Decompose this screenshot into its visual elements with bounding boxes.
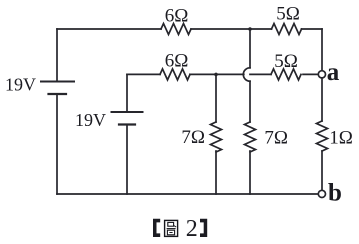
node b terminal circle: [318, 190, 325, 197]
caption bracket right: [200, 219, 207, 237]
wire top-left horizontal segment: [57, 28, 161, 30]
svg-text:1Ω: 1Ω: [329, 128, 353, 149]
junction dot at top wire: [248, 27, 252, 31]
wire left edge lower: [56, 94, 58, 194]
battery V2 19V short plate: [119, 123, 135, 125]
resistor R6 7ohm (right vertical) zigzag: [245, 122, 256, 152]
wire center vertical lower: [249, 151, 251, 194]
battery V2 19V long plate: [112, 111, 143, 113]
wire row2 to node a: [303, 73, 318, 75]
wire top right segment: [302, 28, 323, 30]
wire battery V2 branch upper: [126, 74, 128, 112]
wire top middle segment: [191, 28, 272, 30]
junction dot at row2 wire: [214, 73, 218, 77]
resistor R4 5ohm (row2) zigzag: [271, 69, 301, 80]
node a terminal circle: [318, 71, 325, 78]
wire hop arc (crossover, no connection): [243, 68, 250, 81]
wire center vertical middle: [249, 81, 251, 122]
wire right edge between node a and R7: [321, 78, 323, 121]
resistor R5 7ohm (left vertical) zigzag: [211, 122, 222, 152]
wire branch R5 upper: [215, 74, 217, 122]
svg-text:6Ω: 6Ω: [165, 6, 189, 27]
wire bottom horizontal: [57, 193, 318, 195]
resistor R2 5ohm (top right) zigzag: [272, 24, 302, 35]
svg-text:19V: 19V: [5, 75, 36, 95]
wire row2 middle segment to hop: [190, 73, 244, 75]
wire battery V2 branch lower: [126, 125, 128, 195]
svg-text:7Ω: 7Ω: [181, 127, 205, 148]
caption bracket left: [153, 219, 160, 237]
svg-text:a: a: [327, 59, 340, 86]
battery V1 19V short plate: [49, 93, 67, 95]
svg-text:b: b: [328, 179, 342, 206]
wire center vertical upper (from top junction): [249, 29, 251, 68]
svg-text:5Ω: 5Ω: [276, 4, 300, 25]
svg-text:5Ω: 5Ω: [274, 51, 298, 72]
resistor R3 6ohm (row2) zigzag: [160, 69, 190, 80]
svg-text:2: 2: [186, 216, 198, 242]
wire right edge upper: [321, 29, 323, 71]
wire branch R5 lower: [215, 151, 217, 194]
resistor R7 1ohm zigzag: [317, 121, 328, 151]
svg-text:6Ω: 6Ω: [165, 51, 189, 72]
wire left edge upper: [56, 29, 58, 82]
wire row2 left corner and horizontal to R3: [127, 73, 160, 75]
battery V1 19V long plate: [41, 81, 74, 83]
svg-text:7Ω: 7Ω: [264, 128, 288, 149]
svg-text:19V: 19V: [75, 110, 106, 130]
wire right edge lower to node b: [321, 151, 323, 190]
wire row2 segment hop to R4: [250, 73, 271, 75]
resistor R1 6ohm (top) zigzag: [161, 24, 191, 35]
caption glyph "tu" (figure): [165, 220, 178, 236]
